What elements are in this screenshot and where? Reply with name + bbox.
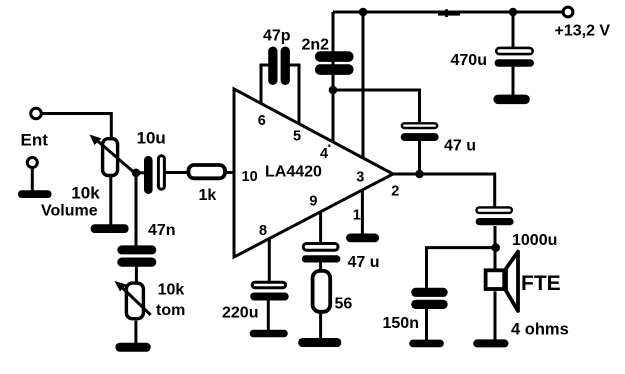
svg-text:tom: tom [156, 302, 185, 319]
potentiometer P2 10k tom body [126, 283, 143, 319]
svg-text:5: 5 [293, 128, 301, 144]
wire 2n2 junction to C 47u (top) [333, 90, 420, 122]
wire 47n to tom pot [135, 267, 138, 282]
wire 1000u to speaker node [494, 226, 497, 248]
svg-text:47p: 47p [263, 28, 291, 45]
wire rail thick joint segment [438, 11, 460, 16]
svg-text:10k: 10k [71, 183, 100, 202]
capacitor 47p [268, 47, 277, 86]
resistor 1k [189, 165, 226, 178]
capacitor 150n [411, 288, 448, 297]
wire pot bottom to ground [109, 176, 112, 225]
svg-text:10u: 10u [137, 129, 166, 148]
svg-text:2: 2 [391, 183, 399, 199]
ground (input) [18, 190, 52, 198]
ground (tom pot) [115, 343, 150, 352]
capacitor 2n2 [315, 51, 354, 62]
wire tom pot to ground [134, 321, 137, 344]
wire wiper junction to C 10u [136, 171, 145, 174]
svg-text:Volume: Volume [41, 202, 98, 219]
svg-text:2n2: 2n2 [302, 36, 330, 53]
wire wiper junction down to C 47n [135, 173, 138, 246]
node rail tick junction [445, 9, 448, 17]
svg-text:47n: 47n [148, 222, 176, 239]
resistor 56 [313, 271, 331, 312]
svg-text:Ent: Ent [21, 131, 49, 150]
ground (pin 1) [346, 234, 379, 243]
wire C 220u to ground [267, 301, 270, 331]
svg-text:56: 56 [335, 296, 353, 313]
svg-text:47 u: 47 u [348, 254, 380, 271]
wire input to volume pot top [42, 114, 111, 139]
wire C 47p to pin 5 [289, 65, 299, 125]
svg-text:9: 9 [309, 193, 317, 209]
input terminal J1 (Ent signal) [31, 108, 42, 119]
speaker FTE cone [506, 252, 518, 311]
node speaker junction [491, 243, 500, 252]
potentiometer P2 wiper arrow [122, 287, 151, 315]
wire rail to C 470u [512, 12, 515, 47]
ground (150n) [409, 340, 444, 348]
wire ground stub [31, 168, 34, 191]
node rail / pin3 junction [359, 8, 368, 17]
svg-text:6: 6 [258, 113, 266, 129]
wire supply rail [333, 11, 563, 14]
svg-text:+13,2 V: +13,2 V [555, 23, 611, 40]
svg-text:1000u: 1000u [512, 232, 557, 249]
pin 4 tick mark [328, 145, 330, 147]
wire C 470u to ground [512, 67, 515, 96]
ground (470u) [494, 95, 530, 105]
node wiper junction [132, 169, 141, 178]
svg-text:10k: 10k [158, 281, 185, 298]
capacitor 470u [496, 48, 532, 54]
wire pin 2 output to 1000u [393, 174, 495, 208]
ground (volume pot) [91, 224, 129, 233]
capacitor 47n [117, 245, 156, 254]
svg-text:4: 4 [320, 146, 328, 162]
svg-text:470u: 470u [451, 52, 487, 69]
input ground terminal [27, 158, 37, 168]
svg-text:8: 8 [259, 223, 267, 239]
wire pin 1 to ground [361, 191, 364, 235]
wire C 47u to R 56 [319, 263, 322, 272]
wire C 47u to output node [418, 141, 421, 174]
wire speaker node to speaker [494, 248, 497, 269]
node output junction [415, 170, 424, 179]
wire 10u to R 1k [166, 171, 189, 174]
potentiometer P1 10k Volume body [103, 139, 118, 176]
ground (56) [298, 338, 341, 347]
wire pin 6 to C 47p [261, 65, 269, 105]
node 2n2 bottom junction [329, 86, 338, 95]
capacitor 47u (top) [402, 123, 437, 128]
speaker FTE box [486, 270, 505, 289]
svg-text:1k: 1k [199, 187, 217, 204]
wire speaker node to C 150n [427, 248, 496, 289]
svg-text:220u: 220u [222, 304, 258, 321]
svg-text:LA4420: LA4420 [265, 163, 322, 180]
node rail / 470u junction [509, 8, 518, 17]
wire pin 8 to C 220u [268, 240, 271, 282]
svg-text:10: 10 [242, 169, 258, 185]
wire 1k to pin 10 [225, 171, 234, 174]
svg-text:FTE: FTE [521, 272, 561, 295]
ground (speaker) [473, 339, 508, 347]
capacitor 220u [252, 282, 285, 288]
ground (220u) [250, 330, 288, 338]
svg-text:150n: 150n [383, 315, 419, 332]
capacitor 47u (bottom) [303, 244, 338, 251]
capacitor 10u (electrolytic) [144, 156, 153, 194]
wire C 150n to ground [425, 309, 428, 341]
terminal +13,2 V [563, 7, 573, 17]
wire pin 3 from rail [362, 12, 365, 159]
op-amp U1 LA4420 [234, 89, 393, 257]
wire pin 4 up through C 2n2 to rail [332, 12, 335, 142]
svg-text:4 ohms: 4 ohms [511, 320, 569, 338]
svg-text:3: 3 [356, 169, 364, 185]
svg-text:47 u: 47 u [444, 137, 476, 154]
wire R 56 to ground [319, 312, 322, 339]
svg-text:1: 1 [353, 207, 361, 223]
wire speaker to ground [494, 291, 497, 340]
potentiometer P1 wiper arrow [97, 140, 135, 173]
wire pin 9 to C 47u (bottom) [319, 213, 322, 243]
capacitor 1000u [477, 207, 512, 213]
